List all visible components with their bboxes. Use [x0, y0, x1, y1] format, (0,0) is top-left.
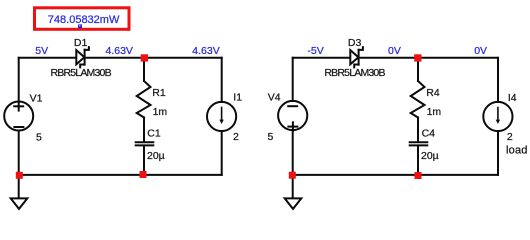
wire V4 bottom to ground node — [292, 130, 294, 175]
node junction C1 bottom — [140, 171, 147, 178]
svg-text:D3: D3 — [348, 37, 362, 49]
text anchor marker — [78, 24, 82, 28]
svg-text:5: 5 — [36, 131, 42, 143]
wire bottom rail left circuit — [19, 174, 222, 176]
svg-text:V1: V1 — [30, 92, 43, 104]
wire I1 bottom — [221, 131, 223, 175]
current source I1 — [207, 102, 236, 131]
svg-text:RBR5LAM30B: RBR5LAM30B — [51, 67, 112, 79]
wire bottom rail right circuit — [293, 174, 498, 176]
svg-text:0V: 0V — [388, 45, 401, 57]
node junction 0V right — [414, 54, 421, 61]
svg-text:2: 2 — [507, 131, 513, 143]
ground right — [285, 198, 302, 209]
wire D1 cathode to I1 column — [85, 57, 222, 59]
svg-text:5: 5 — [268, 131, 274, 143]
wire node to R1 top — [143, 58, 145, 81]
diode D1 — [76, 47, 89, 67]
wire V1 bottom to ground node — [18, 131, 20, 176]
wire top-left horizontal to D3 anode — [293, 57, 351, 59]
wire right circuit left vertical — [292, 58, 294, 101]
svg-text:R1: R1 — [152, 87, 166, 99]
capacitor C4 — [410, 142, 428, 145]
wire C4 bottom to bottom rail — [417, 146, 419, 175]
wire I1 column top — [221, 58, 223, 102]
wire R1 bottom to C1 top — [143, 118, 145, 142]
ground — [11, 198, 28, 209]
svg-text:V4: V4 — [268, 92, 281, 104]
svg-text:D1: D1 — [74, 37, 88, 49]
svg-text:load: load — [506, 145, 528, 157]
wire D3 cathode to I4 column — [359, 57, 498, 59]
wire node to R4 top — [417, 58, 419, 81]
node junction C4 bottom — [415, 172, 422, 179]
wire junction to ground symbol right — [292, 175, 294, 198]
wire junction to ground symbol — [18, 175, 20, 198]
annotation box power readout — [35, 8, 130, 30]
current source I4 — [483, 102, 512, 131]
node junction V4 ground — [289, 172, 296, 179]
svg-text:1m: 1m — [153, 106, 168, 118]
node junction V1 ground — [16, 172, 23, 179]
resistor R4 — [411, 81, 425, 118]
svg-text:20µ: 20µ — [421, 150, 439, 162]
svg-text:20µ: 20µ — [147, 150, 165, 162]
wire I4 column top — [497, 58, 499, 102]
svg-text:C4: C4 — [422, 127, 436, 139]
svg-text:R4: R4 — [426, 87, 440, 99]
capacitor C1 — [136, 142, 154, 145]
svg-text:I4: I4 — [508, 92, 517, 104]
svg-text:-5V: -5V — [307, 45, 323, 57]
svg-text:4.63V: 4.63V — [106, 45, 133, 57]
node junction 4.63V — [141, 54, 148, 61]
resistor R1 — [137, 81, 151, 118]
svg-text:0V: 0V — [474, 45, 487, 57]
svg-text:4.63V: 4.63V — [192, 45, 219, 57]
diode D3 — [350, 47, 363, 67]
svg-text:C1: C1 — [147, 127, 161, 139]
wire top-left horizontal to D1 anode — [19, 57, 77, 59]
voltage source V4 — [278, 101, 307, 131]
wire I4 bottom — [497, 131, 499, 175]
svg-text:1m: 1m — [427, 106, 442, 118]
voltage source V1 — [4, 102, 33, 131]
svg-text:2: 2 — [233, 131, 239, 143]
wire R4 bottom to C4 top — [417, 118, 419, 142]
svg-text:748.05832mW: 748.05832mW — [48, 14, 120, 26]
svg-text:RBR5LAM30B: RBR5LAM30B — [324, 67, 385, 79]
wire left vertical down to V1 — [18, 58, 20, 102]
svg-text:5V: 5V — [35, 45, 48, 57]
wire C1 bottom to bottom rail — [143, 146, 145, 175]
svg-text:I1: I1 — [233, 92, 242, 104]
